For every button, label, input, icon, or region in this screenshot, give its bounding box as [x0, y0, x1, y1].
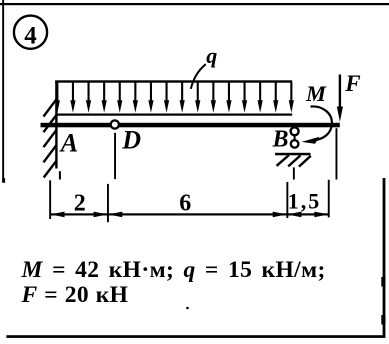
load arrow 15 [273, 82, 278, 113]
moment arrowhead [302, 137, 320, 144]
speck [186, 307, 189, 310]
frame right border [383, 178, 386, 337]
load arrow 6 [133, 82, 138, 113]
svg-text:M: M [305, 81, 327, 106]
line under beam right end [336, 128, 338, 179]
roller support lower circle [291, 140, 299, 148]
roller support at B : upper circle [291, 127, 299, 135]
svg-text:D: D [121, 126, 141, 155]
q label leader line [191, 64, 206, 89]
svg-text:F = 20 кН: F = 20 кН [21, 282, 129, 308]
dimension extension line at right end [328, 180, 330, 218]
extension line under D [114, 133, 116, 179]
svg-text:q: q [206, 43, 217, 68]
wall line end mark [59, 171, 61, 179]
dimension extension line at A [49, 180, 51, 219]
dimension arrows segment 6 [108, 212, 287, 218]
moment arc [311, 106, 332, 140]
load arrow 2 [70, 82, 75, 113]
dimension line [50, 213, 329, 215]
load arrow 14 [258, 82, 263, 113]
right border blob lower [381, 315, 385, 325]
node D circle [111, 120, 119, 128]
svg-text:B: B [272, 127, 289, 153]
svg-text:M = 42 кН·м; q = 15 кН/м;: M = 42 кН·м; q = 15 кН/м; [21, 257, 326, 283]
load arrow 13 [242, 82, 247, 113]
load arrow 7 [148, 82, 153, 113]
load arrow 5 [117, 82, 122, 113]
load arrow 10 [195, 82, 200, 113]
wall support at A [55, 81, 57, 169]
svg-text:2: 2 [74, 190, 86, 216]
distributed load arrows [55, 82, 294, 113]
dimension extension line at D [107, 184, 109, 222]
distributed load q bottom line [56, 114, 292, 116]
load arrow 1 [55, 82, 60, 113]
load arrow 9 [180, 82, 185, 113]
dimension extension line at B [286, 182, 288, 218]
load arrow 12 [226, 82, 231, 113]
force F arrowhead [337, 107, 343, 122]
svg-text:F: F [344, 71, 360, 96]
beam [41, 123, 340, 128]
support ground line [275, 153, 310, 156]
variant number circle 4 [14, 16, 47, 49]
frame top border [0, 3, 389, 5]
svg-text:4: 4 [24, 22, 37, 49]
dimension arrows segment 1,5 [287, 212, 328, 218]
distributed load q top line [55, 80, 292, 82]
frame bottom border [6, 335, 385, 338]
wall hatching [44, 99, 57, 177]
load arrow 16 [289, 82, 294, 113]
roller support link [294, 134, 296, 141]
frame left border [2, 0, 4, 182]
load arrow 8 [164, 82, 169, 113]
svg-text:A: A [59, 129, 78, 158]
support ground hatching [277, 155, 311, 167]
extension line under B support [293, 167, 295, 179]
dimension arrows segment 2 [50, 212, 108, 218]
load arrow 11 [211, 82, 216, 113]
load arrow 3 [86, 82, 91, 113]
svg-text:1,5: 1,5 [288, 189, 322, 214]
right border blob upper [381, 277, 385, 287]
force F arrow stem [339, 75, 341, 111]
load arrow 4 [102, 82, 107, 113]
left border end blob [2, 178, 5, 183]
svg-text:6: 6 [179, 190, 191, 216]
